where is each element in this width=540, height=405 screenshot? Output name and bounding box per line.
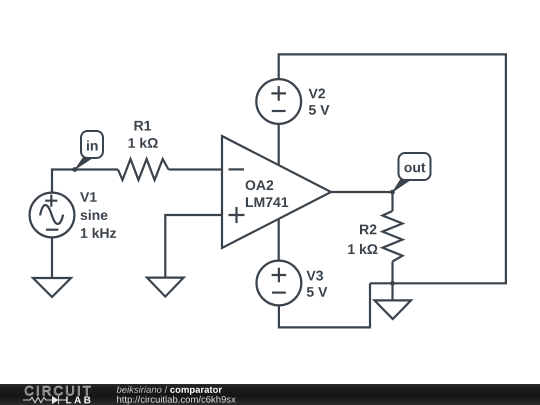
wire: V1 bottom to left ground <box>51 237 53 278</box>
footer credit: separator <box>165 386 168 393</box>
wire: stub to right ground <box>391 283 393 300</box>
wire: R2 top lead <box>391 192 393 211</box>
wire: op-amp V- pin down to V3 <box>278 219 280 261</box>
label OA2 <box>246 180 274 190</box>
voltage source V2 <box>256 79 301 124</box>
ground (left, under V1) <box>33 278 71 297</box>
label V1 <box>80 192 97 202</box>
CircuitLab logo wordmark CIRCUIT <box>25 386 91 395</box>
label R1 <box>135 121 152 131</box>
voltage source V1 (sine) <box>30 193 75 238</box>
footer credit: schematic title <box>170 387 222 395</box>
footer url <box>117 396 236 405</box>
op-amp OA2 triangle body <box>222 136 331 248</box>
label V2 <box>309 89 326 99</box>
label R2 <box>360 224 376 234</box>
node label "out" box <box>399 153 431 180</box>
label V1 type sine <box>81 210 108 220</box>
wire: V3 bottom to bottom-right node <box>279 283 370 327</box>
CircuitLab logo diode <box>52 396 59 404</box>
label R1 value 1 kOhm <box>129 138 158 148</box>
CircuitLab logo wire with resistor <box>23 396 66 404</box>
wire: R2 bottom lead <box>391 262 393 284</box>
wire: middle ground up to op-amp non-inverting input <box>165 215 222 278</box>
label V1 value 1 kHz <box>81 228 116 238</box>
junction node dot at bottom right <box>390 281 395 286</box>
resistor R1 <box>118 159 169 180</box>
wire: V2 top around right side down to bottom-right node <box>279 54 506 283</box>
node label "in" callout tail <box>74 157 94 171</box>
node label "in" box <box>81 131 103 158</box>
label R2 value 1 kOhm <box>348 244 377 254</box>
voltage source V3 <box>257 261 302 306</box>
ground (right, under R2) <box>375 300 412 319</box>
op-amp non-inverting input symbol <box>229 207 245 223</box>
resistor R2 <box>383 211 403 262</box>
label V3 value 5 V <box>307 287 328 297</box>
label LM741 <box>246 197 288 207</box>
wire: op-amp V+ pin up to V2 <box>278 124 280 165</box>
label V3 <box>307 271 324 281</box>
label V2 value 5 V <box>309 105 330 115</box>
junction node dot at "in" <box>72 167 77 172</box>
wire: op-amp output to node out <box>331 191 393 193</box>
footer credit: author name <box>117 386 162 393</box>
junction node dot at "out" <box>390 190 395 195</box>
wire: V1 top to node in to R1 left lead <box>52 170 118 193</box>
op-amp inverting input symbol <box>229 168 245 170</box>
ground (middle, under op-amp + input) <box>147 278 184 297</box>
wire: R1 right lead to op-amp inverting input <box>169 168 223 170</box>
node label "out" callout tail <box>392 179 412 193</box>
CircuitLab logo wordmark LAB <box>66 397 90 404</box>
